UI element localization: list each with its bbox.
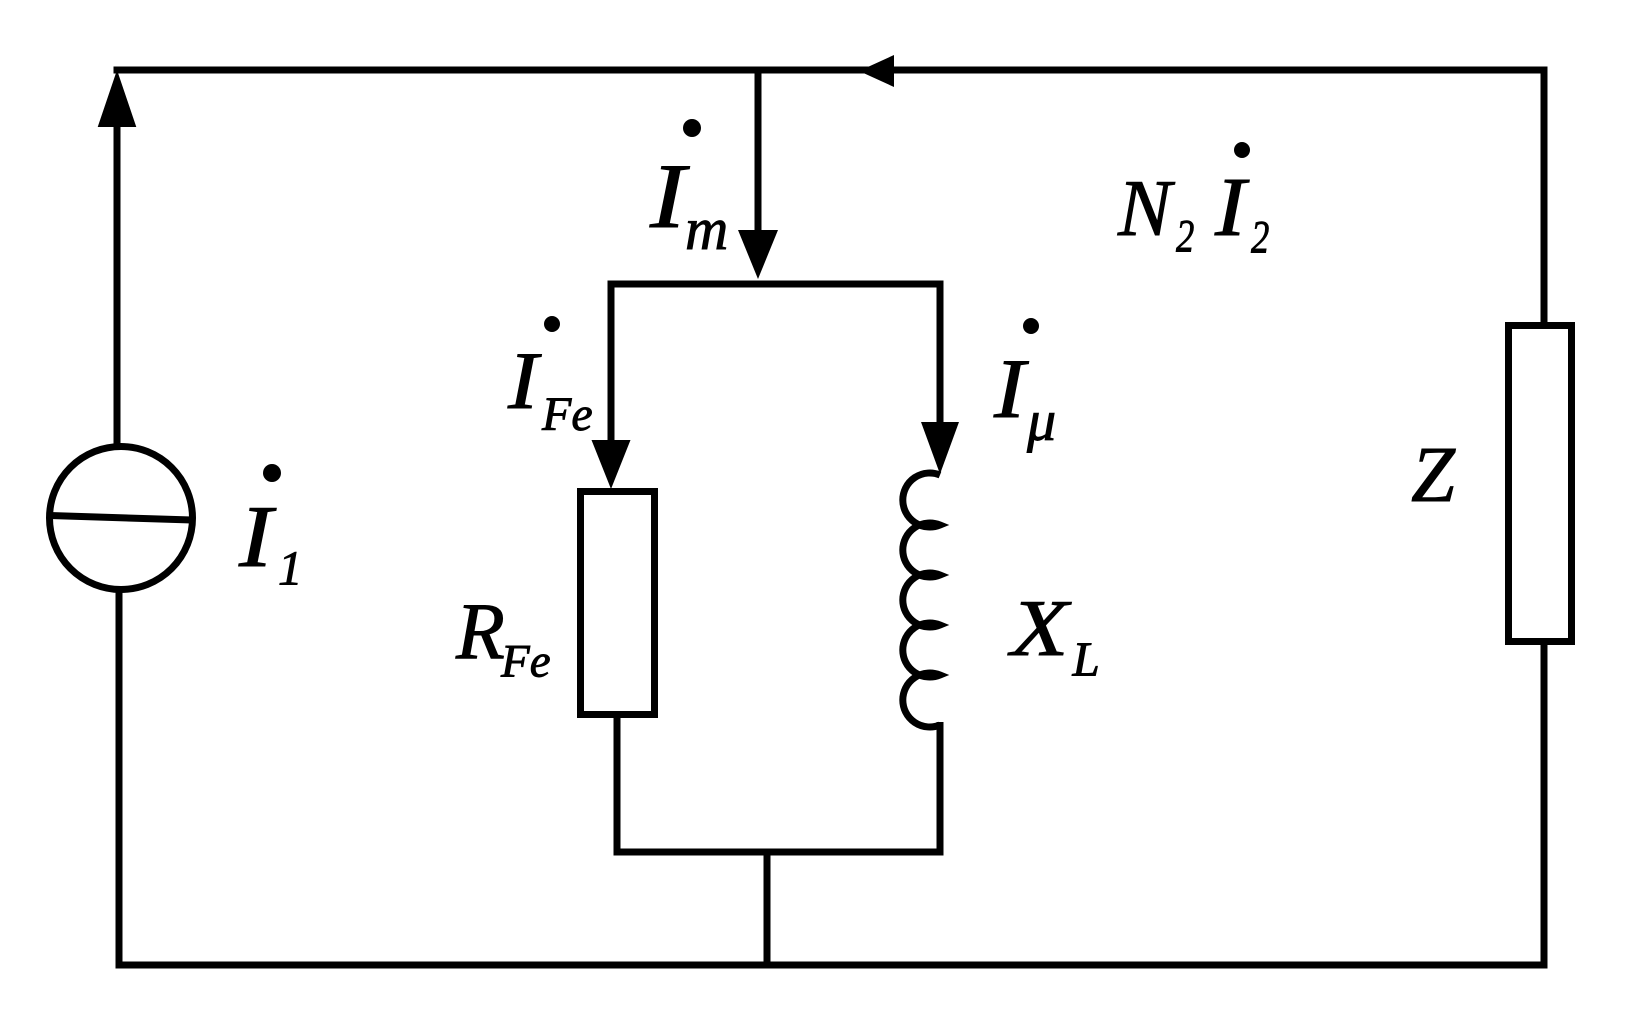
svg-text:2: 2 [1251,211,1269,263]
svg-text:L: L [1072,632,1100,687]
label Imu dot [1023,318,1039,334]
svg-text:N: N [1117,165,1176,253]
svg-text:I: I [993,342,1030,436]
wire right upper (to Z) [1541,67,1548,326]
wire top [114,67,1548,74]
wire RFe branch lower [614,715,621,856]
label Im dot [683,119,701,137]
wire left lower (below current source) [116,589,123,968]
wire parallel-section bottom [614,849,944,856]
arrow down Imu [921,422,959,474]
wire center connector to bottom [764,849,771,966]
wire Im branch vertical [755,67,762,233]
wire bottom [116,962,1548,969]
arrow up on left wire [98,70,137,127]
svg-text:Fe: Fe [541,388,593,441]
arrow left on top wire [859,55,894,87]
svg-text:I: I [1214,161,1250,254]
svg-text:Z: Z [1411,432,1456,519]
impedance Z body [1509,326,1572,642]
svg-text:X: X [1008,584,1073,673]
resistor RFe body [581,492,655,715]
arrow down IFe [592,440,631,489]
wire XL branch upper [937,281,944,424]
arrow down Im [738,230,778,279]
svg-text:Fe: Fe [500,636,551,688]
svg-text:I: I [238,489,277,586]
label I1 dot [263,464,281,482]
svg-text:R: R [455,588,505,676]
svg-text:m: m [685,196,728,262]
inductor XL coil [903,473,940,727]
svg-text:μ: μ [1026,388,1056,453]
current source I1 chord [50,516,192,521]
svg-text:I: I [507,335,543,426]
wire left upper (I1 branch up) [114,124,121,447]
wire right lower (Z to bottom) [1541,642,1548,969]
current source I1 circle [50,447,193,590]
label I2 dot [1234,142,1250,158]
wire RFe branch upper [608,281,615,442]
label IFe dot [544,316,560,332]
svg-text:2: 2 [1176,210,1194,262]
wire parallel-section top [608,281,944,288]
svg-text:1: 1 [278,541,303,596]
wire XL branch lower [937,722,944,856]
